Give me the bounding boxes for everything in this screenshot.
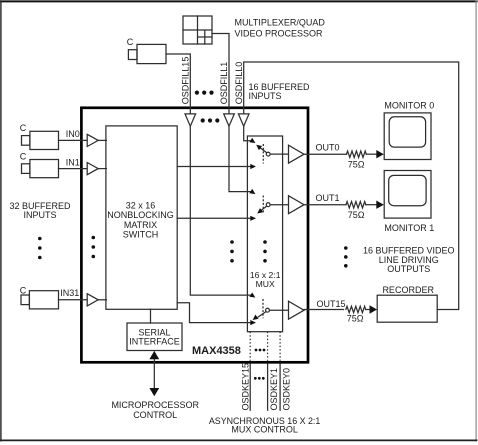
OSDKEY1 dotted control line	[267, 332, 269, 361]
svg-text:MULTIPLEXER/QUAD: MULTIPLEXER/QUAD	[235, 17, 326, 27]
svg-text:C: C	[127, 37, 134, 47]
OSD buffer amp OSDFILL1	[224, 114, 235, 126]
switch 1 blade arrow	[257, 208, 263, 213]
input buffer amp IN31	[87, 294, 98, 306]
switch 1 blade	[260, 206, 267, 211]
wire OUT0	[304, 153, 347, 155]
svg-text:OSDKEY0: OSDKEY0	[281, 368, 291, 411]
connector C (OSDFILL15)	[127, 37, 166, 64]
svg-text:C: C	[20, 285, 27, 295]
svg-text:MUX CONTROL: MUX CONTROL	[231, 425, 298, 435]
connector C (IN1)	[20, 151, 59, 177]
input buffer amp IN0	[87, 134, 98, 146]
svg-text:IN0: IN0	[66, 129, 80, 139]
svg-text:32 x 16: 32 x 16	[126, 201, 156, 211]
svg-text:C: C	[20, 123, 27, 133]
wire matrix out 0 to switch 0 throw	[177, 166, 250, 168]
monitor 1	[384, 171, 431, 219]
throw arrow OSDFILL0	[249, 138, 255, 143]
border frame	[1, 0, 477, 2]
switch 15 pole	[266, 308, 270, 312]
svg-text:MATRIX: MATRIX	[124, 220, 157, 230]
wire IN0	[59, 139, 88, 141]
throw arrow OSDFILL1	[249, 189, 255, 194]
matrix switch label	[107, 201, 174, 240]
wire resistor OUT0 to monitor	[366, 153, 376, 155]
OSDKEY1 line below box	[267, 364, 269, 410]
wire switch 1 to amp	[270, 204, 288, 206]
svg-text:MONITOR 1: MONITOR 1	[384, 223, 434, 233]
input buffer amp IN1	[87, 163, 98, 175]
multiplexer/quad video processor icon	[183, 16, 212, 44]
switch 0 blade	[259, 147, 266, 153]
asynchronous mux control label	[209, 416, 321, 435]
switch 15 blade arrow	[253, 315, 259, 320]
switch 0 blade arrow	[256, 145, 262, 151]
resistor 75ohm OUT1	[346, 202, 366, 208]
wire amp IN31 to matrix	[98, 299, 106, 301]
ellipsis dots left inside	[92, 236, 96, 259]
mux box	[247, 136, 282, 332]
32 buffered inputs label	[9, 201, 71, 220]
wire matrix out 1 to switch 1 throw	[177, 217, 250, 219]
svg-text:NONBLOCKING: NONBLOCKING	[107, 210, 174, 220]
wire OSDFILL15 feed to switch 15 throw	[190, 126, 250, 295]
svg-text:OSDFILL1: OSDFILL1	[219, 62, 229, 105]
matrix switch box	[106, 126, 177, 309]
wire C box to OSDFILL15	[166, 54, 190, 114]
svg-text:INTERFACE: INTERFACE	[129, 336, 180, 346]
output amp OUT15	[289, 301, 305, 319]
svg-text:IN31: IN31	[60, 288, 79, 298]
wire resistor OUT15 to recorder	[366, 309, 370, 311]
ellipsis dots between OSDFILL labels	[195, 91, 214, 95]
wire amp IN1 to matrix	[98, 168, 106, 170]
svg-text:OSDKEY15: OSDKEY15	[240, 363, 250, 411]
svg-text:OUTPUTS: OUTPUTS	[387, 264, 430, 274]
arrow into monitor 0	[376, 150, 384, 158]
wire switch 0 to amp	[270, 153, 288, 155]
arrow into recorder	[370, 305, 378, 313]
wire IN1	[59, 168, 88, 170]
recorder	[377, 295, 437, 322]
svg-text:OSDKEY1: OSDKEY1	[269, 368, 279, 411]
serial interface box	[127, 323, 182, 351]
OSDKEY15 line below box	[249, 364, 251, 410]
ellipsis dots outputs	[344, 246, 348, 267]
svg-text:INPUTS: INPUTS	[249, 91, 282, 101]
switch 15 blade	[258, 312, 266, 317]
svg-text:MUX: MUX	[256, 279, 275, 289]
svg-text:INPUTS: INPUTS	[23, 210, 56, 220]
MAX4358 main box	[81, 108, 308, 362]
wire amp IN0 to matrix	[98, 139, 106, 141]
wire switch 15 to amp	[270, 309, 289, 311]
arrow into monitor 1	[376, 201, 384, 209]
throw arrow matrix out 15	[250, 320, 256, 325]
OSD buffer amp OSDFILL15	[185, 114, 196, 126]
throw arrow matrix out 1	[250, 216, 256, 221]
throw arrow OSDFILL15	[249, 292, 255, 297]
svg-text:OUT1: OUT1	[316, 193, 340, 203]
16 buffered inputs label	[249, 82, 311, 101]
svg-text:VIDEO PROCESSOR: VIDEO PROCESSOR	[235, 28, 324, 38]
svg-text:MAX4358: MAX4358	[192, 345, 241, 357]
ellipsis dots between key lines inside	[255, 349, 266, 352]
OSDKEY0 dotted control line	[279, 332, 281, 361]
connector C (IN31)	[20, 285, 59, 309]
svg-text:SWITCH: SWITCH	[123, 229, 159, 239]
ellipsis dots between key labels below	[254, 377, 265, 380]
wire OSDFILL0 feed to switch 0 throw	[244, 126, 251, 141]
svg-text:C: C	[20, 151, 27, 161]
resistor 75ohm OUT15	[346, 306, 366, 312]
svg-text:IN1: IN1	[66, 157, 80, 167]
connector C (IN0)	[20, 123, 59, 149]
svg-text:CONTROL: CONTROL	[133, 410, 177, 420]
switch 0 pole	[266, 152, 270, 156]
svg-text:75Ω: 75Ω	[348, 160, 365, 170]
wire resistor OUT1 to monitor	[366, 204, 377, 206]
ellipsis dots mux internal left	[230, 240, 234, 262]
switch 1 control dashed line	[262, 196, 264, 214]
svg-text:MONITOR 0: MONITOR 0	[384, 101, 434, 111]
ellipsis dots between OSD amps	[201, 118, 220, 122]
OSDKEY0 line below box	[279, 364, 281, 410]
svg-text:OUT15: OUT15	[317, 299, 346, 309]
svg-text:75Ω: 75Ω	[347, 314, 364, 324]
16 buffered video line driving outputs label	[363, 246, 455, 275]
multiplexer/quad video processor label	[235, 17, 326, 38]
switch 0 control dashed line	[262, 144, 264, 164]
resistor 75ohm OUT0	[347, 151, 367, 157]
monitor 0	[384, 113, 431, 160]
svg-text:MICROPROCESSOR: MICROPROCESSOR	[111, 400, 199, 410]
wire matrix out 15 to switch 15 throw	[177, 303, 250, 323]
svg-text:75Ω: 75Ω	[348, 210, 365, 220]
svg-text:RECORDER: RECORDER	[382, 285, 434, 295]
wire quad processor to OSDFILL1	[212, 34, 229, 114]
wire recorder feedback loop to OSDFILL0	[244, 62, 459, 310]
mux label	[250, 270, 281, 289]
switch 1 pole	[266, 203, 270, 207]
output amp OUT0	[289, 145, 305, 163]
OSD buffer amp OSDFILL0	[238, 114, 249, 126]
output amp OUT1	[289, 196, 305, 214]
wire matrix to serial interface	[150, 309, 152, 323]
wire OUT1	[304, 204, 346, 206]
switch 15 control dashed line	[262, 299, 264, 318]
ellipsis dots left outside	[38, 237, 42, 260]
throw arrow matrix out 0	[250, 164, 256, 169]
svg-text:OSDFILL15: OSDFILL15	[180, 57, 190, 105]
wire IN31	[59, 299, 88, 301]
microprocessor control label	[111, 400, 199, 420]
svg-text:OUT0: OUT0	[316, 142, 340, 152]
microprocessor control double arrow	[149, 351, 159, 396]
wire OUT15	[304, 309, 344, 311]
svg-text:OSDFILL0: OSDFILL0	[234, 62, 244, 105]
OSDKEY15 dotted control line	[249, 332, 251, 361]
ellipsis dots mux internal right	[263, 240, 267, 262]
wire OSDFILL1 feed to switch 1 throw	[229, 126, 251, 191]
